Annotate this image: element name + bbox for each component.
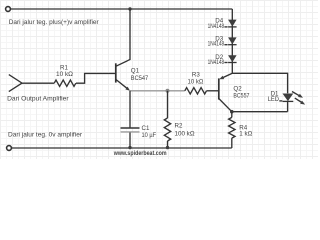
svg-text:R2: R2 — [175, 122, 183, 129]
wire R3 to Q2 base — [207, 90, 219, 92]
label C1 — [142, 125, 157, 139]
svg-text:BC557: BC557 — [233, 92, 249, 99]
label: www.spiderbeat.com — [113, 150, 167, 157]
wire top rail — [11, 8, 233, 10]
node junction on top rail — [128, 7, 131, 10]
svg-text:10 µF: 10 µF — [142, 132, 157, 139]
label D3 — [208, 35, 225, 47]
label R4 — [239, 124, 252, 137]
label leader D3 — [224, 44, 227, 46]
svg-text:Dari jalur teg. plus(+)v ampli: Dari jalur teg. plus(+)v amplifier — [9, 19, 100, 26]
diode D2 1N4148 — [228, 55, 237, 62]
resistor R4 — [229, 112, 235, 148]
LED light arrow 2 — [295, 98, 305, 105]
capacitor C1 — [121, 91, 140, 148]
node junction R2-rail — [166, 146, 169, 149]
wire Q1 base — [76, 73, 116, 83]
label leader D1 — [279, 100, 282, 102]
label: Dari Output Amplifier — [7, 96, 69, 103]
node junction mid (gray) — [166, 89, 170, 93]
label D4 — [208, 18, 225, 30]
wire LED top feed — [232, 73, 287, 93]
diode D3 1N4148 — [228, 37, 237, 44]
svg-text:BC547: BC547 — [131, 75, 149, 82]
wire diode chain vertical — [231, 9, 233, 73]
LED light arrow 1 — [292, 92, 303, 98]
node junction C1-rail — [128, 146, 131, 149]
transistor Q2 BC557 — [219, 73, 233, 111]
diode D4 1N4148 — [228, 20, 237, 27]
resistor R3 — [185, 88, 207, 94]
svg-text:100 kΩ: 100 kΩ — [175, 130, 195, 137]
label: Dari jalur teg. plus(+)v amplifier — [9, 19, 100, 26]
wire input to R1 — [22, 82, 54, 84]
label D1 LED — [268, 91, 280, 104]
label D2 — [208, 54, 225, 66]
label Q1 — [131, 67, 149, 82]
svg-text:C1: C1 — [142, 125, 150, 132]
wire Q1 collector drop — [116, 9, 130, 66]
wire bottom rail — [12, 147, 232, 149]
resistor R1 — [54, 80, 76, 86]
svg-text:10 kΩ: 10 kΩ — [56, 71, 73, 78]
Q2 emitter arrow (PNP) — [219, 76, 224, 80]
label: Dari jalur teg. 0v amplifier — [8, 132, 83, 139]
svg-text:Dari jalur teg. 0v amplifier: Dari jalur teg. 0v amplifier — [8, 132, 83, 139]
terminal T1 (top left, +V input) — [6, 7, 11, 12]
resistor R2 — [164, 91, 170, 148]
label R2 — [175, 122, 195, 137]
svg-text:www.spiderbeat.com: www.spiderbeat.com — [113, 150, 167, 157]
svg-text:LED: LED — [268, 96, 280, 103]
wire mid emitter net (gray) — [130, 90, 185, 92]
wire LED return to collector node — [232, 111, 288, 113]
LED D1 — [283, 94, 294, 102]
node junction collector/R4 — [230, 110, 234, 114]
svg-text:Dari Output Amplifier: Dari Output Amplifier — [7, 96, 69, 103]
terminal T2 (bottom left, 0V) — [7, 146, 12, 151]
Q1 emitter arrow to node — [125, 87, 130, 91]
label leader D2 — [224, 62, 227, 64]
svg-text:1 kΩ: 1 kΩ — [239, 130, 252, 137]
label leader D4 — [224, 26, 227, 28]
svg-text:10 kΩ: 10 kΩ — [188, 79, 204, 86]
label R1 — [56, 65, 73, 79]
svg-text:1N4148: 1N4148 — [208, 23, 225, 30]
label Q2 — [233, 85, 249, 99]
svg-text:1N4148: 1N4148 — [208, 59, 225, 66]
input arrow (Dari Output Amplifier) — [9, 75, 22, 92]
transistor Q1 BC547 — [116, 63, 127, 88]
svg-text:1N4148: 1N4148 — [208, 41, 225, 48]
svg-text:Q1: Q1 — [131, 67, 140, 74]
label R3 — [188, 72, 204, 86]
